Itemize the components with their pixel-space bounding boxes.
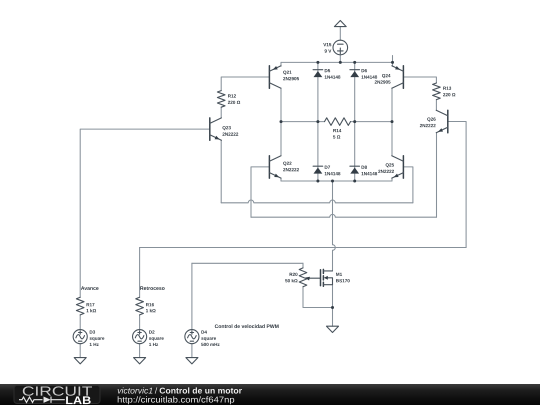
wire D3 to ground	[79, 344, 81, 358]
diode D8 1N4148	[350, 166, 360, 173]
wire R12 bottom to Q23 collector	[220, 107, 222, 118]
wire Retroceso node down to R16	[139, 248, 141, 298]
node junction at 281,121.6	[280, 120, 283, 123]
label Q21 2N2905	[283, 71, 291, 75]
transistor Q24 2N2905 PNP mirrored	[392, 66, 404, 88]
node Retroceso	[140, 286, 164, 290]
wire Q26 emitter down	[436, 133, 438, 218]
wire Q26 base to line3 riser	[448, 122, 466, 248]
node junction at 317.9,181	[316, 180, 319, 183]
wire Q24 base to R13	[403, 77, 436, 83]
node junction at 332.5,307.5	[331, 306, 334, 309]
label D2 square 1 Hz	[149, 330, 154, 333]
label Q24 2N2905	[382, 74, 390, 78]
label Q23 2N2222	[222, 126, 230, 130]
wire R17 to D3	[79, 315, 81, 330]
wire line2 Q22 base to Q26 emitter (hop)	[251, 214, 437, 217]
ground under D4	[186, 358, 198, 364]
voltage source V15 9V	[333, 40, 348, 55]
wire Q24 emitter stub	[392, 56, 394, 67]
wire R20 top from PWM line	[302, 263, 304, 268]
ground under M1 source	[327, 326, 339, 332]
transistor Q21 2N2905 PNP	[269, 66, 281, 88]
node junction at 354.7,121.6	[353, 120, 356, 123]
label R16 1k	[146, 303, 154, 306]
node junction at 392.5,62.4	[391, 61, 394, 64]
wire line3 Retroceso to Q26 base	[140, 247, 467, 249]
label Q25 2N2222	[386, 163, 394, 167]
label D3 square 1 Hz	[90, 330, 95, 333]
node junction at 332.5,181	[331, 180, 334, 183]
potentiometer R20 50k	[299, 268, 320, 287]
label Q26 2N2222	[427, 117, 435, 121]
label D7	[325, 166, 330, 169]
diode D5 1N4148	[313, 70, 323, 77]
label D5	[325, 69, 330, 72]
label R14 5	[333, 129, 341, 132]
source D2 square 1Hz	[133, 330, 147, 344]
MOSFET M1 BS170	[321, 269, 333, 286]
wire R13 bottom to Q26 collector	[435, 100, 437, 111]
wire M1 drain to bottom rail (hop over line3)	[333, 181, 336, 271]
wire line1 Q23 emitter to Q25 base (hops)	[221, 200, 413, 203]
label M1 BS170	[336, 273, 342, 276]
wire M1 source down	[332, 285, 334, 308]
node Avance	[81, 286, 99, 290]
wire Q21 emitter stub	[280, 62, 282, 66]
transistor Q23 2N2222 NPN driver	[210, 118, 222, 140]
resistor R14 5 ohm (load)	[325, 118, 351, 126]
transistor Q22 2N2222 NPN	[269, 156, 281, 178]
wire M1 source to ground	[332, 308, 334, 327]
resistor R16 1k	[136, 297, 144, 315]
wire D4 PWM to R20	[192, 262, 303, 264]
label Q22 2N2222	[283, 162, 291, 166]
wire D2 to ground	[139, 344, 141, 358]
wire diode rail D6/D8	[354, 62, 356, 181]
wire Q22 base left elbow	[251, 167, 269, 217]
wire Q21 collector to mid rail	[280, 88, 282, 121]
wire mid rail left segment	[281, 121, 325, 123]
resistor R17 1k	[76, 297, 84, 315]
node junction at 340.3,62.4	[339, 61, 342, 64]
source D3 square 1Hz	[73, 330, 87, 344]
node junction at 354.7,181	[353, 180, 356, 183]
wire V15 top stub to power flag	[339, 27, 341, 41]
wire Q21 base to R12	[221, 77, 269, 91]
footer bar	[0, 384, 540, 405]
label R17 1k	[87, 303, 95, 306]
node junction at 354.7,62.4	[353, 61, 356, 64]
wire V15 bottom stub to top rail	[339, 55, 341, 63]
node junction at 317.9,62.4	[316, 61, 319, 64]
node junction at 392,121.6	[391, 120, 394, 123]
wire top rail +9V	[281, 61, 393, 63]
wire D4 column	[191, 263, 193, 329]
label V15 / 9 V	[323, 43, 331, 46]
wire diode rail D5/D7	[317, 62, 319, 181]
wire Q24 collector to mid rail	[391, 88, 393, 121]
wire R20 bottom to M1 source	[303, 287, 333, 308]
source D4 square 500mHz	[185, 330, 199, 344]
label R12 220	[228, 94, 236, 97]
wire D4 to ground	[191, 344, 193, 358]
wire Q25 collector to mid rail	[391, 122, 393, 156]
wire Q23 emitter down	[220, 140, 222, 203]
label D6	[362, 69, 367, 72]
wire R16 to D2	[139, 315, 141, 330]
diode D7 1N4148	[313, 166, 323, 173]
ground under D2	[134, 358, 146, 364]
power flag +9V (up arrow)	[334, 21, 346, 27]
transistor Q25 2N2222 NPN mirrored	[392, 156, 404, 178]
diode D6 1N4148	[350, 70, 360, 77]
wire Q25 base riser	[403, 167, 413, 203]
resistor R12 220 ohm	[217, 91, 225, 108]
label R20 50k	[290, 273, 298, 276]
label D8	[362, 166, 367, 169]
wire Q25 emitter stub	[391, 178, 393, 181]
node junction at 317.9,121.6	[316, 120, 319, 123]
wire bottom rail	[281, 180, 392, 182]
wire Q23 base to Avance node	[80, 129, 210, 297]
label D4 square 500 mHz	[201, 330, 207, 333]
label R13 220	[443, 87, 451, 90]
wire Q22 emitter stub	[280, 178, 282, 181]
ground under D3	[74, 358, 86, 364]
transistor Q26 2N2222 NPN driver mirrored	[436, 110, 448, 132]
wire mid rail right segment	[351, 121, 393, 123]
node Control de velocidad PWM	[215, 324, 279, 328]
wire Q22 collector to mid rail	[280, 122, 282, 156]
resistor R13 220 ohm	[433, 83, 441, 100]
